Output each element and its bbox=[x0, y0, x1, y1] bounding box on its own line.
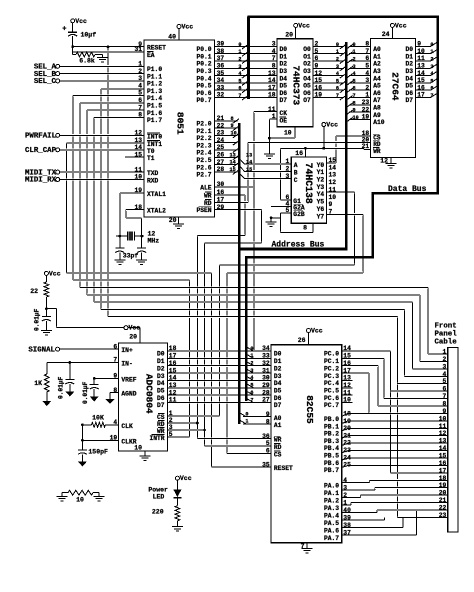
svg-text:9: 9 bbox=[266, 411, 270, 418]
wire 373 OE vertical bbox=[268, 119, 270, 138]
wire 27C64 D1 to data bus bbox=[415, 53, 430, 55]
svg-text:8: 8 bbox=[113, 387, 117, 394]
svg-text:D1: D1 bbox=[157, 358, 165, 365]
wire 138 Y4 net vertical bbox=[353, 192, 355, 265]
svg-text:4: 4 bbox=[272, 48, 276, 55]
svg-text:PB.0: PB.0 bbox=[324, 416, 339, 423]
svg-text:Front: Front bbox=[435, 323, 457, 331]
wire P2.4 to address bus bbox=[215, 149, 238, 151]
svg-text:8: 8 bbox=[365, 41, 369, 48]
wire CS vertical to 82C55 CS bbox=[226, 273, 228, 454]
svg-text:7: 7 bbox=[336, 93, 339, 99]
data bus vertical to 82C55 bbox=[372, 192, 375, 257]
power Vcc terminal top-left bbox=[71, 19, 75, 23]
svg-text:A4: A4 bbox=[373, 75, 381, 82]
svg-text:RXD: RXD bbox=[147, 178, 159, 185]
resistor R2 22 bbox=[45, 275, 47, 282]
svg-text:PB.2: PB.2 bbox=[324, 431, 339, 438]
svg-text:Vcc: Vcc bbox=[49, 270, 61, 277]
svg-text:12: 12 bbox=[329, 179, 337, 186]
svg-text:6.8k: 6.8k bbox=[79, 58, 95, 65]
svg-text:A6: A6 bbox=[373, 90, 381, 97]
svg-text:27: 27 bbox=[262, 397, 270, 404]
svg-text:A2: A2 bbox=[373, 61, 381, 68]
svg-text:22: 22 bbox=[439, 505, 447, 512]
svg-text:5: 5 bbox=[138, 90, 142, 97]
svg-text:10: 10 bbox=[329, 194, 337, 201]
wire PC.0 net vertical to pins 6 and 17 bbox=[390, 351, 392, 473]
svg-text:P0.5: P0.5 bbox=[196, 83, 211, 90]
svg-text:16: 16 bbox=[315, 84, 323, 91]
wire RD net vertical shared bbox=[204, 243, 206, 446]
svg-text:CS: CS bbox=[274, 451, 282, 458]
wire P1.4 horizontal bbox=[73, 94, 144, 96]
svg-text:7: 7 bbox=[365, 48, 369, 55]
ground below right 33pf bbox=[136, 259, 147, 261]
svg-text:18: 18 bbox=[169, 345, 177, 352]
svg-text:21: 21 bbox=[343, 432, 351, 439]
svg-text:11: 11 bbox=[329, 186, 337, 193]
wire 373 O6 to address bus bbox=[313, 89, 344, 91]
svg-text:14: 14 bbox=[246, 160, 252, 166]
svg-text:7: 7 bbox=[272, 55, 276, 62]
svg-text:29: 29 bbox=[217, 204, 225, 211]
svg-text:30: 30 bbox=[262, 375, 270, 382]
svg-text:A1: A1 bbox=[274, 422, 282, 429]
wire 82C55 PC.0 row bbox=[342, 350, 391, 352]
svg-text:0: 0 bbox=[245, 411, 248, 417]
diagonal P2.7 into address bus bbox=[233, 170, 239, 175]
svg-text:24: 24 bbox=[217, 137, 225, 144]
svg-text:36: 36 bbox=[217, 63, 225, 70]
svg-text:PC.0: PC.0 bbox=[324, 351, 339, 358]
svg-text:2: 2 bbox=[430, 57, 433, 63]
svg-text:13: 13 bbox=[439, 438, 447, 445]
svg-text:D5: D5 bbox=[274, 388, 282, 395]
svg-text:17: 17 bbox=[217, 197, 225, 204]
svg-text:39: 39 bbox=[217, 41, 225, 48]
svg-text:15: 15 bbox=[169, 367, 177, 374]
wire IN- line bbox=[47, 361, 119, 363]
diagonal address bus exit A10 bbox=[347, 117, 353, 122]
svg-text:24: 24 bbox=[382, 31, 390, 38]
svg-text:D0: D0 bbox=[157, 351, 165, 358]
svg-text:3: 3 bbox=[430, 64, 433, 70]
svg-text:Address Bus: Address Bus bbox=[272, 241, 325, 250]
wire P1 bundle line 2 bbox=[73, 279, 189, 281]
svg-text:O3: O3 bbox=[303, 68, 311, 75]
svg-text:D2: D2 bbox=[274, 365, 282, 372]
svg-text:ALE: ALE bbox=[200, 185, 212, 192]
svg-text:P0.6: P0.6 bbox=[196, 90, 211, 97]
wire front panel riser 1 bbox=[427, 288, 429, 355]
wire front panel riser 3 bbox=[411, 302, 413, 369]
wire 82C55 PB.5 to front panel bbox=[342, 451, 448, 453]
wire P1.7 horizontal bbox=[94, 116, 144, 118]
svg-text:P1.6: P1.6 bbox=[147, 110, 162, 117]
diagonal data bus to 82C55 D0 bbox=[247, 347, 254, 351]
svg-text:3: 3 bbox=[272, 41, 276, 48]
svg-text:10: 10 bbox=[76, 497, 84, 504]
wire XTAL2 horizontal bbox=[126, 209, 144, 211]
wire 82C55 PC.1 row bbox=[342, 357, 384, 359]
svg-text:PWRFAIL: PWRFAIL bbox=[25, 133, 57, 141]
resistor R6 220 bbox=[175, 506, 180, 521]
svg-text:RD: RD bbox=[274, 444, 282, 451]
svg-text:4: 4 bbox=[430, 71, 433, 77]
svg-text:19: 19 bbox=[110, 435, 118, 442]
svg-text:3: 3 bbox=[343, 484, 347, 491]
svg-text:P2.5: P2.5 bbox=[196, 157, 211, 164]
svg-text:3: 3 bbox=[250, 368, 253, 374]
wire CLR_CAP to T0 bbox=[58, 149, 144, 151]
svg-text:15: 15 bbox=[417, 77, 425, 84]
diagonal address bus to A0 bbox=[347, 44, 353, 49]
wire PWRFAIL to INT0 bbox=[58, 134, 144, 136]
resistor R1 6.8k bbox=[72, 47, 74, 55]
wire PSEN horizontal bbox=[215, 209, 262, 211]
wire address bus to 27C64 A7 bbox=[349, 96, 371, 98]
svg-text:6: 6 bbox=[336, 86, 339, 92]
diagonal data bus to 82C55 D4 bbox=[247, 376, 254, 380]
capacitor C2 33pf left bbox=[119, 236, 121, 248]
svg-text:1: 1 bbox=[336, 49, 339, 55]
svg-text:22: 22 bbox=[362, 106, 370, 113]
wire 27C64 D7 to data bus bbox=[415, 96, 430, 98]
svg-text:PB.4: PB.4 bbox=[324, 445, 339, 452]
wire P1.5 net vertical bbox=[79, 103, 81, 288]
wire 82C55 PC.3 row bbox=[342, 372, 369, 374]
svg-text:D7: D7 bbox=[157, 402, 165, 409]
svg-text:11: 11 bbox=[134, 166, 142, 173]
svg-text:17: 17 bbox=[343, 367, 351, 374]
diagonal data bus to 82C55 D2 bbox=[247, 362, 254, 366]
svg-text:2: 2 bbox=[336, 57, 339, 63]
data bus vertical at 82C55 bbox=[245, 256, 248, 401]
wire P0.7 to 373 D7 bbox=[215, 96, 277, 98]
wire 82C55 PC.4 row bbox=[342, 379, 353, 381]
wire P1.6 horizontal bbox=[87, 109, 144, 111]
svg-text:PA.4: PA.4 bbox=[324, 512, 339, 519]
LED D1 power bbox=[176, 480, 178, 489]
wire P1 bundle line 1 bbox=[67, 272, 212, 274]
svg-text:10µf: 10µf bbox=[81, 32, 97, 39]
wire 138 Y7 net vertical bbox=[362, 214, 364, 272]
wire P2.5 to address bus bbox=[215, 156, 238, 158]
svg-text:PB.5: PB.5 bbox=[324, 453, 339, 460]
wire front panel pin 20 entry bbox=[360, 494, 447, 496]
svg-text:Vcc: Vcc bbox=[311, 328, 323, 335]
svg-text:MIDI_RX: MIDI_RX bbox=[25, 177, 57, 185]
wire WR net vertical shared bbox=[196, 235, 198, 438]
svg-text:26: 26 bbox=[217, 152, 225, 159]
svg-text:G2B: G2B bbox=[293, 211, 305, 218]
svg-text:39: 39 bbox=[343, 514, 351, 521]
svg-text:30: 30 bbox=[217, 181, 225, 188]
svg-text:PA.1: PA.1 bbox=[324, 490, 339, 497]
svg-text:15: 15 bbox=[329, 157, 337, 164]
ground below C5 bbox=[65, 392, 74, 397]
svg-text:9: 9 bbox=[353, 108, 356, 114]
svg-text:1: 1 bbox=[250, 353, 253, 359]
ground below C4 bbox=[41, 330, 52, 332]
svg-text:26: 26 bbox=[298, 337, 306, 344]
svg-text:Y5: Y5 bbox=[317, 199, 325, 206]
wire P1.7 net vertical bbox=[93, 117, 95, 302]
wire Vcc rail jog to 27C64 WR bbox=[363, 148, 365, 149]
svg-text:8: 8 bbox=[138, 112, 142, 119]
svg-text:PC.4: PC.4 bbox=[324, 380, 339, 387]
wire T1 stub bbox=[125, 156, 144, 158]
svg-text:MHz: MHz bbox=[148, 238, 160, 245]
svg-text:PC.7: PC.7 bbox=[324, 402, 339, 409]
svg-text:PB.6: PB.6 bbox=[324, 460, 339, 467]
wire 82C55 PA.0 to front panel bbox=[342, 482, 370, 484]
wire address bus to 27C64 A5 bbox=[349, 82, 371, 84]
wire 373 O5 to address bus bbox=[313, 82, 344, 84]
svg-text:40: 40 bbox=[168, 34, 176, 41]
svg-text:D1: D1 bbox=[280, 53, 288, 60]
diagonal address bus to A2 bbox=[347, 59, 353, 64]
svg-text:0: 0 bbox=[353, 42, 356, 48]
svg-text:PB.3: PB.3 bbox=[324, 438, 339, 445]
wire P0.1 to 373 D1 bbox=[215, 53, 277, 55]
diagonal P2.3 into address bus bbox=[233, 141, 239, 146]
ground at 27C64 pin 12 bbox=[390, 158, 392, 164]
svg-text:32: 32 bbox=[217, 92, 225, 99]
svg-text:D0: D0 bbox=[405, 46, 413, 53]
svg-text:D5: D5 bbox=[157, 388, 165, 395]
diagonal 373 O6 into address bus bbox=[340, 88, 346, 93]
wire 27C64 D2 to data bus bbox=[415, 60, 430, 62]
svg-text:5: 5 bbox=[169, 431, 173, 438]
wire P2.2 to address bus bbox=[215, 134, 238, 136]
svg-text:D2: D2 bbox=[157, 365, 165, 372]
wire P1.3 net vertical bbox=[100, 89, 102, 309]
svg-text:0: 0 bbox=[250, 346, 253, 352]
wire ALE horizontal bbox=[215, 186, 254, 188]
wire PC.1 to pin 7 bbox=[384, 397, 448, 399]
svg-text:Y2: Y2 bbox=[317, 177, 325, 184]
svg-text:5: 5 bbox=[315, 48, 319, 55]
svg-text:12: 12 bbox=[134, 130, 142, 137]
svg-text:CK: CK bbox=[280, 110, 288, 117]
wire ADC RD row bbox=[167, 422, 197, 424]
svg-text:VREF: VREF bbox=[121, 376, 136, 383]
ground below 150pF bbox=[78, 462, 87, 467]
wire RD vertical to 27C64 OE bbox=[247, 142, 249, 202]
svg-text:10: 10 bbox=[284, 130, 292, 137]
svg-text:2: 2 bbox=[353, 57, 356, 63]
wire G1 vertical to Vcc rail bbox=[280, 148, 282, 200]
svg-text:10: 10 bbox=[439, 415, 447, 422]
svg-text:1: 1 bbox=[138, 61, 142, 68]
svg-text:12: 12 bbox=[439, 430, 447, 437]
wire P2.7 to address bus bbox=[215, 171, 238, 173]
svg-text:4: 4 bbox=[250, 375, 253, 381]
svg-text:16: 16 bbox=[217, 189, 225, 196]
wire 82C55 A1 row bbox=[243, 423, 273, 425]
wire front panel pin 1 entry bbox=[428, 353, 448, 355]
wire 82C55 PC.5 row bbox=[342, 387, 353, 389]
svg-text:13: 13 bbox=[169, 382, 177, 389]
ground below 220 bbox=[176, 521, 178, 527]
svg-text:35: 35 bbox=[262, 461, 270, 468]
svg-text:6: 6 bbox=[365, 55, 369, 62]
svg-text:PC.6: PC.6 bbox=[324, 395, 339, 402]
wire 82C55 PC.7 row bbox=[342, 401, 353, 403]
address bus vertical bbox=[238, 123, 241, 424]
wire 373 CK horizontal bbox=[254, 111, 277, 113]
data bus top edge bbox=[247, 15, 437, 18]
svg-text:4: 4 bbox=[113, 419, 117, 426]
wire 22-ohm node to ADC Vcc bbox=[46, 308, 56, 310]
svg-text:O2: O2 bbox=[303, 61, 311, 68]
wire RESET node vertical bbox=[107, 47, 109, 317]
wire 138 Y7 bbox=[327, 213, 364, 215]
svg-text:25: 25 bbox=[343, 462, 351, 469]
capacitor C4 0.01uF mid-left bbox=[45, 309, 47, 317]
svg-text:IN+: IN+ bbox=[121, 347, 133, 354]
svg-text:29: 29 bbox=[262, 382, 270, 389]
wire Y7 net horizontal bbox=[227, 272, 363, 274]
diagonal P0.2 into data bus bbox=[242, 59, 248, 64]
svg-text:WR: WR bbox=[373, 148, 381, 155]
svg-text:P1.4: P1.4 bbox=[147, 95, 162, 102]
svg-text:P2.3: P2.3 bbox=[196, 142, 211, 149]
wire address bus to 27C64 A9 bbox=[349, 111, 371, 113]
svg-text:8051: 8051 bbox=[175, 112, 186, 135]
wire 82C55 PB.0 to front panel bbox=[342, 413, 448, 416]
svg-text:13: 13 bbox=[268, 70, 276, 77]
wire SEL_C to P1.2 bbox=[58, 80, 144, 82]
svg-text:5: 5 bbox=[336, 78, 339, 84]
wire SEL_A to P1.0 bbox=[58, 65, 144, 67]
svg-text:22: 22 bbox=[343, 440, 351, 447]
wire P1 bundle line 4 bbox=[87, 294, 420, 296]
svg-text:2: 2 bbox=[365, 84, 369, 91]
svg-text:A7: A7 bbox=[373, 97, 381, 104]
wire 82C55 PB.4 to front panel bbox=[342, 443, 448, 445]
svg-text:RESET: RESET bbox=[147, 45, 166, 52]
wire INT1 net vertical bbox=[66, 143, 68, 273]
svg-text:P0.1: P0.1 bbox=[196, 53, 211, 60]
svg-text:P1.7: P1.7 bbox=[147, 117, 162, 124]
svg-text:13: 13 bbox=[417, 63, 425, 70]
wire P2.3 to address bus bbox=[215, 142, 238, 144]
wire 373 OE horizontal bbox=[269, 118, 277, 120]
diagonal data bus to 82C55 D1 bbox=[247, 354, 254, 358]
wire bundle net A vertical to RESET bbox=[211, 273, 213, 467]
svg-text:D4: D4 bbox=[280, 75, 288, 82]
wire WR jog horizontal bbox=[197, 234, 245, 236]
svg-text:P2.0: P2.0 bbox=[196, 121, 211, 128]
svg-text:Y4: Y4 bbox=[317, 191, 325, 198]
svg-text:PA.7: PA.7 bbox=[324, 535, 339, 542]
svg-text:6: 6 bbox=[430, 86, 433, 92]
junction dot ADC clock bbox=[81, 423, 84, 426]
svg-text:P0.0: P0.0 bbox=[196, 46, 211, 53]
svg-text:Y1: Y1 bbox=[317, 169, 325, 176]
address bus horizontal bbox=[239, 248, 347, 251]
wire 138 C select bbox=[244, 178, 291, 180]
wire 82C55 PA.2 to front panel bbox=[342, 497, 361, 499]
svg-text:10K: 10K bbox=[92, 415, 104, 422]
ground below C6 bbox=[90, 397, 99, 402]
svg-text:19: 19 bbox=[134, 187, 142, 194]
wire EA line to pin 31 bbox=[73, 51, 144, 53]
diagonal address bus to A6 bbox=[347, 88, 353, 93]
wire PC.3 merge to pin 9 row bbox=[369, 412, 448, 414]
svg-text:13: 13 bbox=[343, 375, 351, 382]
diagonal P2.2 into address bus bbox=[233, 133, 239, 138]
svg-text:33: 33 bbox=[217, 84, 225, 91]
svg-text:2: 2 bbox=[238, 57, 241, 63]
IC U1 8051 box bbox=[144, 40, 215, 217]
svg-text:15: 15 bbox=[343, 353, 351, 360]
svg-text:Panel: Panel bbox=[435, 331, 458, 339]
wire XTAL2 jog bbox=[126, 217, 142, 219]
diagonal address bus to 82C55 A0 bbox=[239, 413, 246, 417]
svg-text:14: 14 bbox=[329, 164, 337, 171]
wire 138 G2B bbox=[281, 212, 292, 214]
IC U2 74HC373 box bbox=[277, 39, 313, 127]
svg-text:0: 0 bbox=[430, 42, 433, 48]
svg-text:O5: O5 bbox=[303, 83, 311, 90]
svg-text:T0: T0 bbox=[147, 148, 155, 155]
svg-text:19: 19 bbox=[362, 114, 370, 121]
diagonal address bus exit A9 bbox=[347, 110, 353, 115]
wire ADC D1 data row bbox=[167, 357, 272, 359]
power Vcc mid-left bbox=[44, 271, 48, 275]
svg-text:RD: RD bbox=[157, 421, 165, 428]
svg-text:A8: A8 bbox=[373, 105, 381, 112]
wire 82C55 A0 row bbox=[243, 416, 273, 418]
diagonal P0.6 into data bus bbox=[242, 88, 248, 93]
svg-text:3: 3 bbox=[286, 173, 290, 180]
wire SIGNAL to IN+ bbox=[58, 348, 119, 350]
svg-text:1: 1 bbox=[343, 499, 347, 506]
diagonal data bus to 82C55 D7 bbox=[247, 399, 254, 403]
wire WR vertical jog bbox=[244, 195, 246, 236]
svg-text:WR: WR bbox=[274, 437, 282, 444]
svg-text:D5: D5 bbox=[405, 83, 413, 90]
svg-text:PC.3: PC.3 bbox=[324, 373, 339, 380]
svg-text:Y0: Y0 bbox=[317, 162, 325, 169]
wire 27C64 D4 to data bus bbox=[415, 74, 430, 76]
wire P0.2 to 373 D2 bbox=[215, 60, 277, 62]
diagonal 373 O1 into address bus bbox=[340, 52, 346, 57]
svg-text:D0: D0 bbox=[280, 46, 288, 53]
diagonal 373 O2 into address bus bbox=[340, 59, 346, 64]
wire P0.5 to 373 D5 bbox=[215, 82, 277, 84]
svg-text:4: 4 bbox=[443, 371, 447, 378]
svg-text:PB.7: PB.7 bbox=[324, 467, 339, 474]
wire CLK line with 10K bbox=[82, 424, 91, 426]
svg-text:18: 18 bbox=[439, 475, 447, 482]
svg-text:15: 15 bbox=[439, 453, 447, 460]
diagonal P2.1 into address bus bbox=[233, 126, 239, 131]
svg-text:34: 34 bbox=[217, 77, 225, 84]
svg-text:O6: O6 bbox=[303, 90, 311, 97]
svg-text:12: 12 bbox=[380, 158, 388, 165]
svg-text:2: 2 bbox=[169, 417, 173, 424]
svg-text:7: 7 bbox=[430, 93, 433, 99]
svg-text:RESET: RESET bbox=[274, 465, 293, 472]
wire ADC D7 data row bbox=[167, 401, 272, 403]
diagonal P2.4 into address bus bbox=[233, 148, 239, 153]
wire 82C55 PA.5 to front panel bbox=[342, 519, 385, 521]
